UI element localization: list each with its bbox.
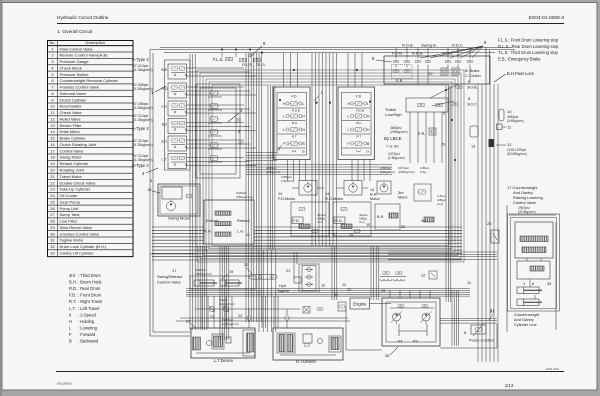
svg-text:R.D.Motor: R.D.Motor: [325, 196, 344, 201]
svg-text:R.T.: R.T.: [69, 299, 76, 304]
svg-text:F.L.S.: F.L.S.: [213, 57, 223, 62]
svg-text:3rd C.: 3rd C.: [467, 102, 478, 107]
svg-text:17: 17: [172, 268, 177, 273]
svg-text:R.T.Device: R.T.Device: [296, 359, 317, 364]
svg-text:E.B.: E.B.: [396, 78, 403, 83]
svg-text:: Backward: : Backward: [78, 339, 99, 344]
svg-text:Accumulator: Accumulator: [60, 104, 83, 109]
svg-text:32: 32: [50, 244, 55, 249]
svg-text:Low/High: Low/High: [385, 112, 402, 117]
svg-text:Swing Motor: Swing Motor: [168, 216, 191, 221]
svg-text:14: 14: [370, 188, 374, 192]
svg-text:Description: Description: [86, 40, 105, 45]
svg-text:12: 12: [507, 142, 512, 147]
svg-text:(7kg: (7kg: [420, 170, 426, 174]
svg-text:C: Clutch: C: Clutch: [465, 74, 481, 78]
svg-text:Slow Return Valve: Slow Return Valve: [60, 225, 93, 230]
svg-text:F.D.B.: F.D.B.: [392, 51, 403, 56]
svg-text:29: 29: [441, 143, 445, 147]
svg-text:12: 12: [321, 283, 325, 288]
svg-text:Check Valve: Check Valve: [60, 110, 83, 115]
svg-text:8: 8: [468, 79, 470, 84]
svg-text:1 Overall Circuit: 1 Overall Circuit: [57, 29, 93, 35]
svg-text:E.B.: E.B.: [418, 132, 425, 136]
svg-text:R.D.C.: R.D.C.: [452, 43, 464, 48]
svg-text:1/13: 1/13: [505, 383, 514, 388]
svg-text:Relief Valve: Relief Valve: [60, 116, 82, 121]
svg-text:26: 26: [50, 206, 55, 211]
svg-text:B.H: B.H: [357, 121, 362, 125]
svg-text:15: 15: [366, 223, 370, 227]
svg-text:L.T: L.T: [162, 158, 168, 162]
svg-text:G: G: [367, 150, 370, 154]
svg-text:R.D.: R.D.: [69, 286, 77, 291]
svg-text:P1: P1: [398, 339, 403, 344]
svg-text:L: L: [348, 115, 350, 119]
svg-text:P2: P2: [413, 339, 418, 344]
svg-text:T.L.S.: Third Drum Lowering st: T.L.S.: Third Drum Lowering stop: [498, 50, 558, 55]
svg-text:13: 13: [50, 123, 55, 128]
svg-text:B.H.: B.H.: [69, 280, 77, 285]
svg-text:By LBCE: By LBCE: [384, 136, 402, 141]
svg-text:30: 30: [50, 231, 55, 236]
svg-text:Control Valve: Control Valve: [513, 200, 536, 205]
svg-text:15: 15: [50, 136, 55, 141]
svg-text:R.T: R.T: [357, 135, 362, 139]
svg-text:B-Type 2: B-Type 2: [132, 163, 149, 168]
svg-text:B: Brake: B: Brake: [465, 69, 480, 73]
svg-text:22: 22: [50, 180, 55, 185]
svg-text:L.H.: L.H.: [237, 229, 244, 234]
svg-text:(210kg/cm²): (210kg/cm²): [518, 210, 536, 214]
svg-text:: Right Travel: : Right Travel: [78, 299, 102, 304]
svg-text:3rd: 3rd: [162, 123, 167, 127]
svg-text:3rd B.: 3rd B.: [467, 85, 478, 90]
svg-text:(4-28kg/cm²): (4-28kg/cm²): [133, 106, 152, 110]
svg-text:II: II: [69, 312, 71, 317]
svg-text:L: L: [348, 128, 350, 132]
svg-text:cm²): cm²): [359, 220, 365, 224]
svg-text:R.T: R.T: [162, 140, 169, 144]
svg-text:Cylinder Line: Cylinder Line: [514, 322, 537, 327]
svg-text:21: 21: [50, 174, 55, 179]
svg-text:26: 26: [385, 353, 389, 358]
svg-text:18: 18: [50, 155, 55, 160]
svg-text:: 2-Speed: : 2-Speed: [78, 312, 96, 317]
svg-text:17: 17: [50, 148, 55, 153]
svg-text:: Lowering: : Lowering: [78, 325, 98, 330]
svg-text:Hoist Motor: Hoist Motor: [60, 129, 81, 134]
svg-text:R.D: R.D: [162, 87, 169, 91]
svg-text:11: 11: [246, 233, 250, 237]
svg-text:F.D.: F.D.: [69, 293, 76, 298]
svg-text:cm²): cm²): [317, 220, 323, 224]
svg-text:21: 21: [286, 268, 290, 273]
svg-text:5: 5: [443, 112, 445, 116]
svg-text:Flow Control Valve: Flow Control Valve: [60, 46, 94, 51]
svg-text:R.D.B: R.D.B: [292, 109, 300, 113]
svg-text:: Boom Hoist: : Boom Hoist: [78, 280, 102, 285]
svg-text:Control Valve: Control Valve: [157, 280, 181, 285]
svg-text:B.H: B.H: [162, 68, 168, 72]
svg-text:Travel Motor: Travel Motor: [60, 174, 83, 179]
svg-text:A-Type 2: A-Type 2: [132, 126, 149, 131]
svg-text:: Rear Drum: : Rear Drum: [78, 286, 101, 291]
svg-text:B.H.: B.H.: [370, 193, 377, 197]
svg-text:14: 14: [50, 129, 55, 134]
svg-text:Clutch Cylinder: Clutch Cylinder: [60, 97, 88, 102]
svg-text:1: 1: [523, 282, 525, 286]
svg-text:10: 10: [50, 104, 55, 109]
svg-text:Motor: Motor: [398, 196, 408, 200]
svg-text:22: 22: [238, 313, 242, 318]
svg-text:Motor: Motor: [370, 197, 380, 201]
svg-text:(4-15kg/cm²): (4-15kg/cm²): [133, 143, 152, 147]
svg-text:E.B.: Emergency Brake: E.B.: Emergency Brake: [498, 56, 541, 61]
svg-text:9: 9: [333, 233, 335, 237]
svg-text:F.L.S.: Front Drum Lowering st: F.L.S.: Front Drum Lowering stop: [498, 38, 559, 43]
svg-text:13: 13: [471, 145, 475, 149]
svg-text:33: 33: [547, 282, 551, 286]
svg-text:Tagline Motor: Tagline Motor: [60, 238, 85, 243]
svg-text:H: H: [69, 319, 72, 324]
svg-text:: Holding: : Holding: [78, 319, 95, 324]
svg-text:R.D.B: R.D.B: [357, 109, 365, 113]
svg-text:Pump Unit: Pump Unit: [60, 206, 80, 211]
svg-text:8: 8: [468, 96, 470, 101]
svg-text:10: 10: [507, 109, 512, 114]
svg-text:31: 31: [50, 238, 55, 243]
svg-text:(258kg/cm²): (258kg/cm²): [390, 130, 408, 134]
svg-text:ES04-01-0088-3: ES04-01-0088-3: [529, 15, 565, 21]
svg-text:(0.5kg/cm²): (0.5kg/cm²): [388, 156, 405, 160]
svg-text:R.D.: R.D.: [335, 218, 343, 223]
svg-text:F.D: F.D: [356, 95, 362, 99]
svg-text:: Front Drum: : Front Drum: [78, 293, 102, 298]
svg-text:G: G: [302, 150, 305, 154]
svg-text:L.T.: L.T.: [69, 306, 76, 311]
svg-text:12: 12: [421, 274, 425, 278]
svg-text:F.D.: F.D.: [293, 218, 300, 223]
svg-text:Swing B.: Swing B.: [421, 43, 437, 48]
svg-text:Solenoid Valve: Solenoid Valve: [60, 91, 87, 96]
svg-text:R.D.B.: R.D.B.: [402, 43, 414, 48]
svg-text:(4-15kg/cm²): (4-15kg/cm²): [133, 68, 152, 72]
svg-text:29: 29: [428, 71, 433, 76]
svg-text:(350kg/cm²): (350kg/cm²): [195, 272, 212, 276]
svg-text:L: L: [283, 115, 285, 119]
svg-text:No.: No.: [49, 40, 55, 45]
svg-text:8: 8: [464, 330, 466, 335]
svg-text:Counterweight Removal Cylinder: Counterweight Removal Cylinder: [60, 78, 119, 83]
svg-text:(4-28kg/cm²): (4-28kg/cm²): [133, 87, 152, 91]
svg-text:Swing Motor: Swing Motor: [60, 155, 83, 160]
svg-text:B.H: B.H: [292, 121, 297, 125]
svg-text:(4-15kg/cm²): (4-15kg/cm²): [133, 118, 152, 122]
svg-text:Check Block: Check Block: [60, 65, 82, 70]
svg-text:Line Filter: Line Filter: [60, 219, 78, 224]
svg-text:B.H.Pawl Lock: B.H.Pawl Lock: [507, 71, 535, 76]
svg-text:Pressure Gauge: Pressure Gauge: [60, 59, 90, 64]
svg-text:B.H.: B.H.: [377, 215, 384, 219]
svg-text:: Forward: : Forward: [78, 332, 96, 337]
svg-text:L: L: [367, 102, 369, 106]
svg-text:L: L: [303, 102, 305, 106]
svg-text:20: 20: [50, 168, 55, 173]
svg-text:Remote Control Valve(A,B): Remote Control Valve(A,B): [60, 53, 109, 58]
svg-text:F.D: F.D: [291, 95, 297, 99]
svg-text:Sump Tank: Sump Tank: [60, 212, 80, 217]
svg-text:28: 28: [487, 221, 492, 226]
svg-text:27: 27: [490, 309, 494, 314]
svg-text:F: F: [348, 142, 350, 146]
svg-text:B: B: [69, 339, 72, 344]
svg-text:27: 27: [50, 212, 55, 217]
svg-text:4-Series Control Valve: 4-Series Control Valve: [60, 85, 100, 90]
svg-text:Swing/Retract: Swing/Retract: [157, 274, 183, 279]
svg-text:F.D.Motor: F.D.Motor: [278, 196, 296, 201]
svg-text:Double Check Valve: Double Check Valve: [60, 180, 97, 185]
svg-text:ES04-0166: ES04-0166: [546, 367, 560, 371]
svg-text:L.T.Device: L.T.Device: [214, 358, 234, 363]
svg-text:: Third Drum: : Third Drum: [78, 273, 101, 278]
svg-text:12: 12: [50, 116, 55, 121]
svg-text:cm²): cm²): [437, 202, 443, 206]
svg-text:Pressure Switch: Pressure Switch: [60, 72, 89, 77]
svg-text:(350kg/cm²): (350kg/cm²): [236, 195, 253, 199]
svg-text:7 or 30: 7 or 30: [386, 144, 399, 149]
svg-text:T.L.S.: T.L.S.: [256, 62, 266, 67]
svg-text:Clutch Rotating Joint: Clutch Rotating Joint: [60, 142, 98, 147]
svg-text:Rotating Joint: Rotating Joint: [60, 168, 85, 173]
svg-text:19: 19: [50, 161, 55, 166]
svg-text:24: 24: [50, 193, 55, 198]
svg-text:3-Series Control Valve: 3-Series Control Valve: [60, 231, 100, 236]
svg-text:Gantry Lift Cylinder: Gantry Lift Cylinder: [60, 250, 95, 255]
svg-text:6: 6: [532, 282, 534, 286]
svg-text:(4-15kg/cm²): (4-15kg/cm²): [133, 158, 152, 162]
svg-text:13: 13: [342, 283, 346, 287]
svg-text:3rd: 3rd: [69, 273, 76, 278]
svg-text:21: 21: [186, 320, 190, 324]
svg-text:Control Valve: Control Valve: [60, 148, 84, 153]
svg-text:L: L: [283, 128, 285, 132]
svg-text:8912EH05: 8912EH05: [57, 382, 72, 386]
svg-text:(80-85kg/cm²): (80-85kg/cm²): [507, 152, 527, 156]
svg-text:11: 11: [467, 281, 471, 285]
svg-text:(349kg/cm²): (349kg/cm²): [507, 119, 524, 123]
svg-text:Brake Cylinder: Brake Cylinder: [60, 136, 87, 141]
svg-text:3rd: 3rd: [421, 219, 426, 223]
svg-text:A-Type 2: A-Type 2: [132, 57, 149, 62]
svg-text:Take-Up Cylinder: Take-Up Cylinder: [60, 187, 91, 192]
svg-text:F.D: F.D: [162, 105, 168, 109]
svg-text:R.T: R.T: [292, 135, 297, 139]
svg-text:Hydraulic Circuit Outline: Hydraulic Circuit Outline: [57, 15, 109, 21]
svg-text:16: 16: [50, 142, 55, 147]
svg-text:Drum Lock Cylinder (B.H.): Drum Lock Cylinder (B.H.): [60, 244, 107, 249]
svg-text:: Left Travel: : Left Travel: [78, 306, 99, 311]
svg-text:25: 25: [50, 199, 55, 204]
svg-text:Oil Cooler: Oil Cooler: [60, 193, 78, 198]
svg-text:18: 18: [147, 187, 152, 192]
svg-text:Return Filter: Return Filter: [60, 123, 83, 128]
svg-text:28: 28: [50, 219, 55, 224]
svg-text:Retract Cylinder: Retract Cylinder: [60, 161, 89, 166]
svg-text:3rd: 3rd: [398, 191, 404, 195]
svg-text:(228kg/cm²): (228kg/cm²): [398, 170, 415, 174]
svg-text:19: 19: [229, 269, 233, 274]
svg-text:F: F: [283, 142, 285, 146]
svg-text:33: 33: [50, 250, 55, 255]
svg-text:23: 23: [50, 187, 55, 192]
svg-text:29: 29: [50, 225, 55, 230]
svg-text:R.L.S.: Rear Drum Lowering sto: R.L.S.: Rear Drum Lowering stop: [498, 44, 559, 49]
svg-text:Gear Pump: Gear Pump: [60, 199, 81, 204]
svg-text:16: 16: [349, 233, 353, 237]
svg-text:R.H.: R.H.: [204, 229, 212, 234]
svg-text:Engine: Engine: [353, 302, 367, 307]
